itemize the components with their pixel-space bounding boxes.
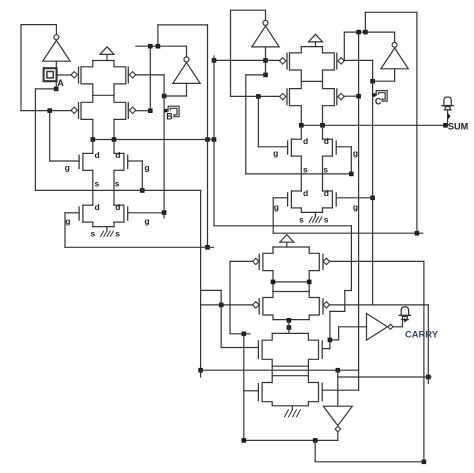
svg-text:s: s (115, 229, 120, 239)
svg-text:d: d (324, 188, 329, 198)
svg-text:s: s (95, 179, 100, 189)
svg-text:C: C (375, 96, 382, 106)
svg-text:d: d (115, 202, 120, 212)
svg-text:g: g (273, 148, 278, 158)
svg-text:g: g (353, 202, 358, 212)
svg-text:g: g (65, 162, 70, 172)
svg-text:s: s (303, 164, 308, 174)
svg-text:d: d (303, 136, 308, 146)
svg-text:s: s (324, 214, 329, 224)
svg-text:s: s (91, 229, 96, 239)
svg-text:A: A (57, 78, 64, 88)
svg-text:d: d (303, 188, 308, 198)
svg-text:g: g (353, 148, 358, 158)
svg-text:B: B (166, 112, 173, 122)
svg-text:CARRY: CARRY (405, 329, 439, 340)
svg-text:d: d (95, 150, 100, 160)
svg-text:s: s (323, 164, 328, 174)
svg-text:s: s (115, 179, 120, 189)
svg-text:g: g (144, 216, 149, 226)
svg-text:SUM: SUM (448, 122, 469, 132)
svg-text:s: s (299, 214, 304, 224)
svg-text:d: d (324, 136, 329, 146)
svg-text:d: d (115, 150, 120, 160)
svg-text:d: d (95, 202, 100, 212)
svg-text:g: g (274, 202, 279, 212)
svg-text:g: g (65, 216, 70, 226)
svg-text:g: g (144, 162, 149, 172)
